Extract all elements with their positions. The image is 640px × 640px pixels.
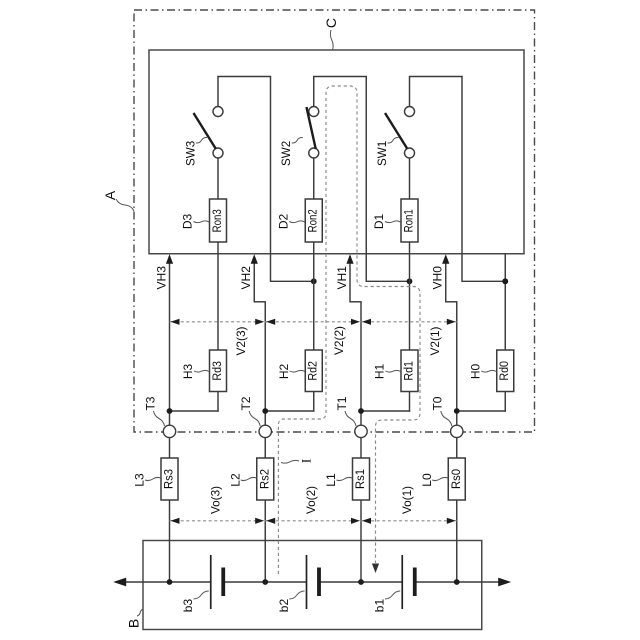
svg-text:VH2: VH2 [239, 266, 253, 290]
terminal T3 [163, 425, 175, 437]
leader for label B [137, 609, 144, 616]
resistor Ron3 [210, 199, 227, 242]
svg-text:V2(3): V2(3) [234, 326, 248, 355]
leader for H2 [290, 370, 305, 372]
leader for L3 [145, 477, 161, 480]
wire Ron1 down to Rd1 [409, 242, 411, 350]
wire H3 horizontal [169, 410, 219, 412]
wire T3 to Rs3 [169, 438, 171, 458]
leader for label A [116, 199, 134, 211]
wire node VH0 line [445, 256, 447, 303]
junction T2 node [262, 408, 268, 414]
svg-text:T1: T1 [335, 396, 349, 410]
svg-text:SW1: SW1 [375, 140, 389, 166]
battery box B [143, 541, 482, 630]
current path I (dashed loop) [278, 86, 420, 574]
current path I arrow [372, 564, 379, 574]
wire T1 to Rs1 [360, 438, 362, 458]
svg-text:D3: D3 [181, 214, 195, 230]
junction battery tap T3 [167, 579, 173, 585]
wire SW1 to Ron1 [409, 158, 411, 199]
wire switch branch SW3 top [217, 77, 219, 107]
svg-text:V2(1): V2(1) [428, 326, 442, 355]
junction T0 node [454, 408, 460, 414]
svg-text:H3: H3 [181, 364, 195, 380]
leader for D1 [385, 221, 401, 223]
wire T2 to Rs2 [264, 438, 266, 458]
resistor Rd1 [401, 350, 418, 392]
battery bus left arrow [113, 578, 126, 587]
wire L2 to battery [264, 500, 266, 582]
svg-text:b3: b3 [181, 599, 195, 613]
resistor Rd3 [210, 350, 227, 392]
wire H1 horizontal [360, 410, 410, 412]
svg-text:b1: b1 [373, 599, 387, 613]
wire node VH1 line [349, 256, 351, 303]
svg-text:B: B [126, 619, 142, 628]
battery bus wire [120, 581, 211, 583]
junction T1 node [358, 408, 364, 414]
svg-text:SW3: SW3 [184, 140, 198, 166]
svg-text:Rd1: Rd1 [404, 361, 416, 381]
resistor Rs3 [161, 458, 178, 500]
svg-text:Rs1: Rs1 [355, 469, 367, 489]
wire SW2 to node VH1 [366, 280, 409, 282]
wire H0 horizontal [456, 410, 506, 412]
dimension arrows Vo [171, 518, 180, 524]
wire SW3 to Ron3 [217, 158, 219, 199]
svg-text:VH0: VH0 [431, 266, 445, 290]
svg-text:I: I [299, 459, 314, 463]
svg-text:D2: D2 [276, 214, 290, 230]
wire Ron2 down to Rd2 [313, 242, 315, 350]
dimension arrows V2 [171, 319, 180, 325]
junction battery tap T2 [262, 579, 268, 585]
svg-text:L1: L1 [324, 473, 338, 487]
wire SW3 to node VH2 [271, 280, 314, 282]
resistor Ron2 [305, 199, 322, 242]
wire Rd0 bottom [504, 392, 506, 412]
wire L0 to battery [456, 500, 458, 582]
switch SW3 upper contact [213, 107, 223, 117]
junction battery tap T0 [454, 579, 460, 585]
wire node VH2 line [253, 256, 255, 303]
wire Ron3 down to Rd3 [217, 242, 219, 350]
terminal T1 [355, 425, 367, 437]
junction T3 node [167, 408, 173, 414]
wire box C to Rd0 [504, 254, 506, 350]
leader for label I [281, 460, 299, 463]
svg-text:T3: T3 [143, 396, 157, 410]
leader for b3 [194, 591, 209, 599]
battery cell b1 negative plate [413, 568, 417, 597]
svg-text:L2: L2 [228, 473, 242, 487]
resistor Rs0 [448, 458, 465, 500]
module box A (dash-dot border) [134, 10, 535, 432]
terminal T2 [259, 425, 271, 437]
leader for T1 [345, 411, 356, 426]
svg-text:Vo(1): Vo(1) [400, 486, 414, 514]
leader for H1 [386, 370, 401, 372]
svg-text:D1: D1 [372, 214, 386, 230]
svg-text:Ron1: Ron1 [404, 209, 416, 232]
leader for label C [330, 30, 333, 50]
switch SW2 lower contact [309, 148, 319, 158]
wire SW2 to Ron2 [313, 158, 315, 199]
leader for T3 [154, 411, 165, 426]
svg-text:Ron3: Ron3 [212, 209, 224, 232]
svg-text:T2: T2 [239, 396, 253, 410]
leader for T2 [249, 411, 260, 426]
battery cell b2 positive plate [306, 555, 308, 609]
svg-text:VH1: VH1 [335, 266, 349, 290]
leader for b2 [289, 591, 304, 599]
svg-text:H0: H0 [468, 364, 482, 380]
switch block box C [149, 50, 524, 254]
leader for D2 [289, 221, 305, 223]
node VH0 arrow [442, 254, 449, 264]
svg-text:Rs0: Rs0 [451, 469, 463, 489]
wire Rd3 bottom [217, 392, 219, 412]
leader for b1 [385, 591, 400, 599]
switch SW2 blade [306, 107, 315, 149]
leader for SW3 [196, 137, 207, 143]
wire Rd1 bottom [409, 392, 411, 412]
svg-text:H2: H2 [277, 364, 291, 380]
battery cell b3 negative plate [221, 568, 225, 597]
wire Rd2 bottom [313, 392, 315, 412]
wire T0 to Rs0 [456, 438, 458, 458]
leader for SW2 [292, 137, 303, 143]
leader for SW1 [388, 137, 399, 143]
terminal T0 [451, 425, 463, 437]
svg-text:Rd3: Rd3 [212, 361, 224, 381]
junction SW1-VH0 [502, 278, 508, 284]
switch SW3 blade [194, 113, 216, 149]
svg-text:L3: L3 [133, 473, 147, 487]
wire node VH3 line [169, 256, 171, 426]
svg-text:b2: b2 [277, 599, 291, 613]
wire H2 horizontal [265, 410, 315, 412]
dimension line Vo (dashed) [170, 520, 457, 522]
leader for H3 [194, 370, 209, 372]
battery cell b3 positive plate [210, 555, 212, 609]
wire L1 to battery [360, 500, 362, 582]
leader for T0 [441, 411, 452, 426]
node VH3 arrow [166, 254, 173, 264]
svg-text:A: A [102, 190, 118, 200]
wire switch branch SW1 top [409, 77, 411, 107]
svg-text:Vo(2): Vo(2) [304, 486, 318, 514]
svg-text:Vo(3): Vo(3) [208, 486, 222, 514]
switch SW2 upper contact [309, 107, 319, 117]
junction battery tap T1 [358, 579, 364, 585]
svg-text:Ron2: Ron2 [308, 209, 320, 232]
battery cell b2 negative plate [317, 568, 321, 597]
svg-text:Rd0: Rd0 [499, 361, 511, 381]
resistor Ron1 [401, 199, 418, 242]
svg-text:L0: L0 [420, 473, 434, 487]
junction SW1-VH0 [502, 278, 508, 284]
svg-text:V2(2): V2(2) [332, 326, 346, 355]
dimension line V2 (dashed) [170, 321, 457, 323]
leader for L1 [337, 477, 353, 480]
svg-text:Rs2: Rs2 [259, 469, 271, 489]
leader for L0 [432, 477, 448, 480]
svg-text:SW2: SW2 [279, 140, 293, 166]
wire switch branch SW2 top [313, 77, 315, 107]
svg-text:VH3: VH3 [155, 266, 169, 290]
resistor Rs2 [257, 458, 274, 500]
node VH1 arrow [346, 254, 353, 264]
resistor Rd0 [497, 350, 514, 392]
battery cell b1 positive plate [401, 555, 403, 609]
leader for D3 [194, 221, 210, 223]
node VH2 arrow [251, 254, 258, 264]
svg-text:Rd2: Rd2 [308, 361, 320, 381]
junction SW3-VH2 [311, 278, 317, 284]
svg-text:H1: H1 [373, 364, 387, 380]
svg-text:C: C [323, 18, 339, 28]
resistor Rd2 [305, 350, 322, 392]
junction SW2-VH1 [407, 278, 413, 284]
battery bus right arrow [498, 578, 511, 587]
leader for L2 [241, 477, 256, 480]
wire SW1 to node VH0 [462, 280, 505, 282]
switch SW3 lower contact [213, 148, 223, 158]
leader for H0 [481, 370, 496, 372]
svg-text:Rs3: Rs3 [164, 469, 176, 489]
svg-text:T0: T0 [431, 396, 445, 410]
switch SW1 blade [385, 113, 407, 149]
wire L3 to battery [169, 500, 171, 582]
switch SW1 lower contact [405, 148, 415, 158]
switch SW1 upper contact [405, 107, 415, 117]
resistor Rs1 [353, 458, 370, 500]
